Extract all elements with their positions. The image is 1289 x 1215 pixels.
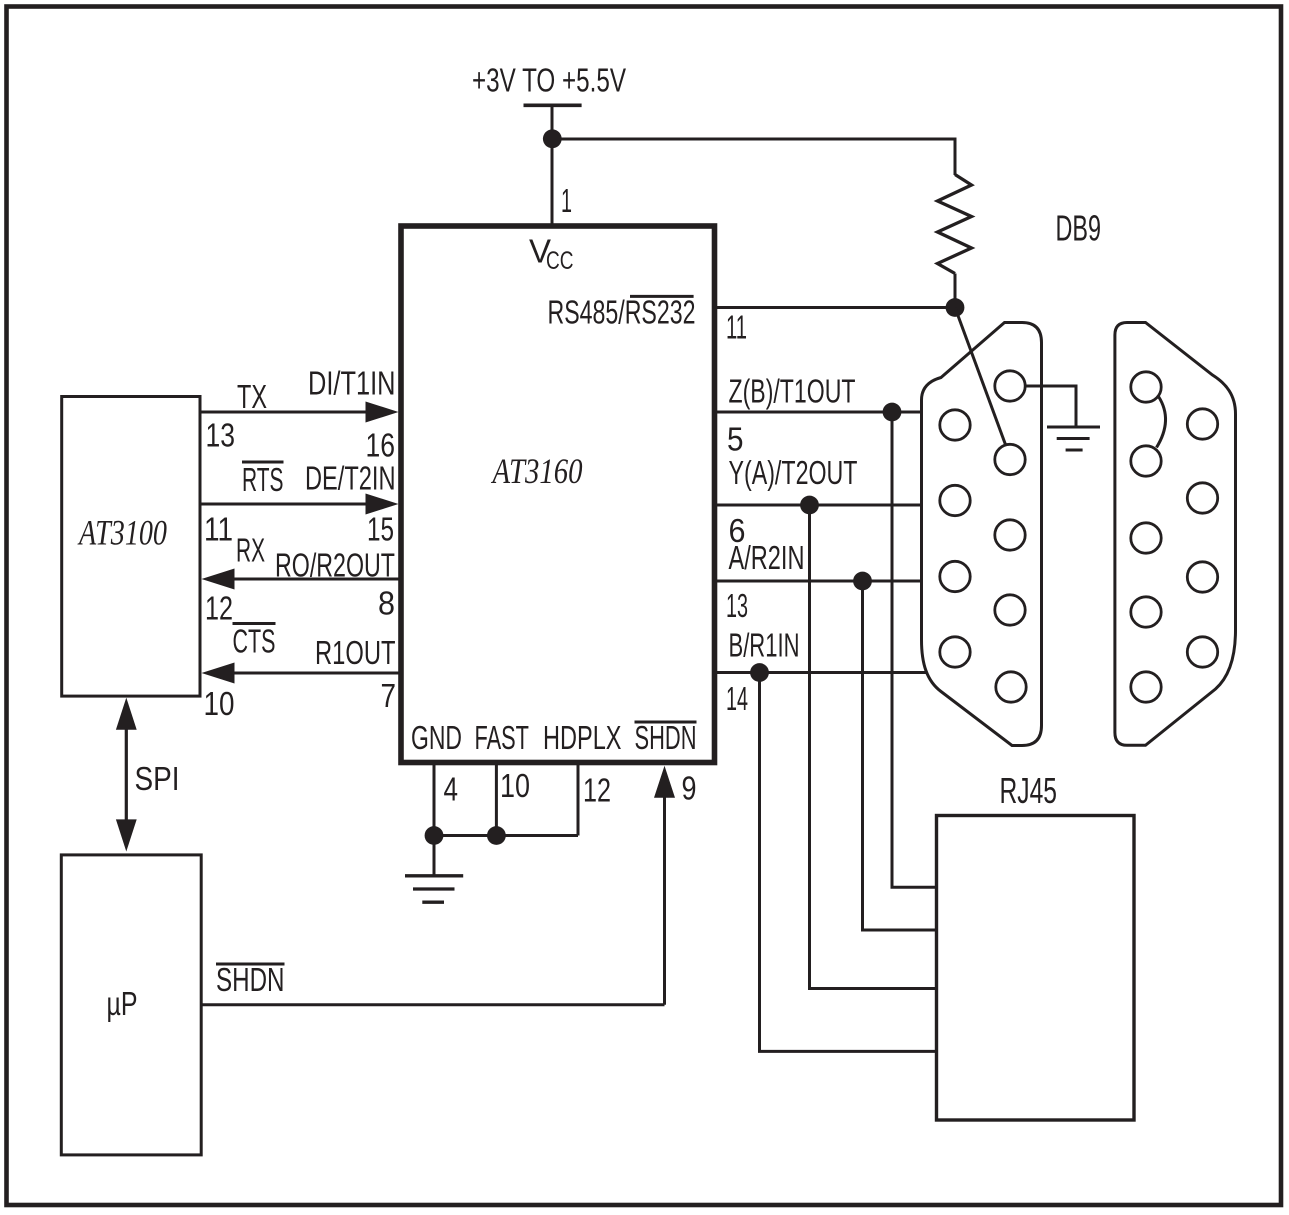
junction VCC node: [543, 129, 562, 148]
SPI bidirectional arrow: [125, 726, 128, 824]
wire Y(A)/T2OUT to DB9: [714, 504, 922, 507]
svg-text:Z(B)/T1OUT: Z(B)/T1OUT: [729, 373, 856, 410]
svg-text:7: 7: [381, 677, 397, 714]
resistor R1 bottom lead: [954, 274, 957, 309]
DB9 right pins column B: [1187, 409, 1217, 667]
svg-text:11: 11: [204, 511, 233, 548]
svg-text:RO/R2OUT: RO/R2OUT: [275, 547, 395, 584]
wire A/R2IN to DB9: [714, 580, 922, 583]
svg-text:RX: RX: [236, 532, 265, 569]
wire FAST pin down: [495, 763, 498, 836]
svg-text:4: 4: [444, 771, 459, 808]
block U2 AT3100 body: [62, 397, 200, 697]
svg-text:DB9: DB9: [1056, 208, 1102, 249]
junction A node: [853, 572, 872, 591]
resistor R1 top lead: [954, 138, 957, 176]
wire SHDN horizontal from uP: [201, 1003, 664, 1006]
svg-text:A/R2IN: A/R2IN: [729, 539, 805, 576]
junction GND node: [425, 826, 444, 845]
DB9 left pins column B: [995, 371, 1026, 702]
svg-text:10: 10: [204, 685, 235, 722]
wire RX net: [233, 578, 401, 581]
svg-text:8: 8: [378, 585, 395, 622]
wire GND node to ground: [433, 836, 436, 876]
wire TX net: [200, 411, 367, 414]
IC U1 AT3160 body: [401, 226, 715, 763]
ground symbol under IC: [405, 876, 463, 902]
svg-text:R1OUT: R1OUT: [315, 634, 396, 671]
wire VCC node to resistor R1: [552, 138, 955, 141]
resistor R1: [938, 175, 972, 274]
svg-text:µP: µP: [107, 985, 138, 1022]
wire Y node down to RJ45: [810, 505, 937, 989]
ground symbol at DB9: [1047, 427, 1100, 450]
DB9 right pins column A: [1131, 372, 1161, 702]
arrow into DI/T1IN: [366, 402, 399, 423]
wire HDPLX pin down: [577, 763, 580, 836]
wire Z(B)/T1OUT to DB9: [714, 411, 922, 414]
svg-text:RTS: RTS: [242, 461, 284, 498]
wire RS485/RS232 pin to node: [714, 306, 955, 309]
svg-text:GND: GND: [411, 719, 462, 756]
svg-text:13: 13: [726, 587, 748, 624]
svg-text:14: 14: [726, 680, 748, 717]
connector J1 DB9 left shell: [922, 323, 1042, 746]
wire loopback arc on DB9 right: [1157, 397, 1166, 448]
svg-text:CC: CC: [546, 247, 574, 275]
svg-text:11: 11: [726, 309, 747, 346]
svg-text:RJ45: RJ45: [1000, 770, 1058, 811]
wire A node down to RJ45: [863, 581, 937, 930]
wire SHDN vertical: [663, 797, 666, 1005]
wire CTS net: [233, 672, 401, 675]
svg-text:5: 5: [727, 421, 744, 458]
arrow into DE/T2IN: [366, 494, 399, 515]
wire B node down to RJ45: [760, 673, 937, 1052]
svg-text:10: 10: [500, 767, 530, 804]
wire RTS net: [200, 503, 367, 506]
svg-text:1: 1: [561, 182, 572, 219]
svg-text:Y(A)/T2OUT: Y(A)/T2OUT: [729, 454, 858, 491]
block U3 microprocessor body: [61, 855, 201, 1155]
wire GND pin down: [433, 763, 436, 836]
arrow into AT3100 RX: [202, 569, 235, 590]
connector J3 RJ45 body: [937, 816, 1135, 1121]
junction Z node: [883, 403, 902, 422]
DB9 left pins column A: [940, 410, 970, 667]
svg-text:TX: TX: [237, 378, 267, 415]
svg-text:DI/T1IN: DI/T1IN: [308, 365, 396, 402]
svg-text:15: 15: [367, 511, 394, 548]
svg-text:16: 16: [366, 427, 396, 464]
svg-text:SHDN: SHDN: [216, 961, 285, 998]
wire diagonal RS485 node to DB9 pin: [955, 308, 1006, 447]
svg-text:9: 9: [682, 770, 697, 807]
wire VCC node to pin 1: [551, 139, 554, 224]
wire GND bus horizontal: [434, 834, 578, 837]
svg-text:HDPLX: HDPLX: [543, 719, 622, 756]
svg-text:DE/T2IN: DE/T2IN: [305, 460, 396, 497]
svg-text:+3V TO +5.5V: +3V TO +5.5V: [472, 62, 626, 99]
junction Y node: [800, 496, 819, 515]
svg-text:12: 12: [583, 772, 611, 809]
junction RS485 node: [946, 298, 965, 317]
svg-text:SPI: SPI: [135, 760, 180, 797]
svg-text:12: 12: [205, 590, 233, 627]
svg-text:B/R1IN: B/R1IN: [729, 627, 800, 664]
svg-text:AT3100: AT3100: [77, 513, 167, 553]
svg-text:SHDN: SHDN: [635, 719, 697, 756]
wire B/R1IN to DB9: [714, 671, 926, 674]
svg-text:RS485/RS232: RS485/RS232: [548, 294, 696, 331]
connector J2 DB9 right shell: [1115, 323, 1236, 746]
wire power bar to VCC node: [551, 105, 554, 139]
junction B node: [750, 663, 769, 682]
svg-text:FAST: FAST: [475, 719, 530, 756]
junction FAST node: [487, 826, 506, 845]
wire DB9 pin to ground: [1025, 386, 1076, 426]
arrow into SHDN pin 9: [654, 766, 675, 798]
svg-text:AT3160: AT3160: [491, 451, 583, 491]
wire Z node down to RJ45: [892, 412, 937, 887]
power rail bar symbol: [524, 104, 582, 108]
arrow into AT3100 CTS: [202, 663, 235, 684]
svg-text:CTS: CTS: [233, 623, 276, 660]
svg-text:13: 13: [206, 417, 236, 454]
